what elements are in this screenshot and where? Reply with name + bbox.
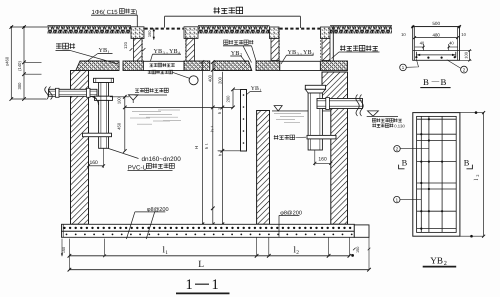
- YB2 right dim line: [460, 112, 484, 114]
- svg-text:h: h: [209, 129, 214, 132]
- svg-text:1: 1: [108, 50, 110, 55]
- svg-text:dn160~dn200: dn160~dn200: [142, 156, 182, 163]
- svg-text:1: 1: [212, 277, 219, 293]
- B-B rebar mark 2: [461, 66, 468, 73]
- svg-text:YB: YB: [430, 255, 443, 265]
- svg-text:2: 2: [396, 147, 399, 152]
- label reserved for suction pump: [148, 70, 173, 74]
- svg-text:4: 4: [178, 50, 181, 55]
- svg-text:3: 3: [218, 108, 222, 110]
- shaft1 brick wall left: [134, 39, 143, 62]
- svg-text:2: 2: [296, 250, 299, 256]
- svg-text:L: L: [198, 260, 204, 270]
- pipe support bracket chamber1: [83, 133, 112, 137]
- svg-text:150: 150: [356, 247, 360, 253]
- chamber1 water line: [125, 106, 233, 108]
- B-B rebar mark 1: [400, 64, 407, 71]
- svg-text:≥460: ≥460: [4, 56, 9, 66]
- svg-text:100: 100: [463, 51, 468, 58]
- shaft2 brick wall right: [322, 39, 330, 61]
- svg-text:1Φ6( C15: 1Φ6( C15: [92, 9, 119, 16]
- svg-text:): ): [135, 9, 137, 16]
- inlet drop pipe: [99, 100, 109, 148]
- shaft2 inner face dashed lines: [278, 31, 280, 61]
- svg-text:2: 2: [463, 67, 466, 72]
- dim line L: [69, 269, 369, 271]
- ground line mid segment: [198, 25, 270, 27]
- svg-text:B: B: [423, 77, 429, 87]
- chamber2 water line: [272, 110, 331, 112]
- chamber1 water ripples: [132, 110, 161, 112]
- shaft2 concrete collar right: [321, 27, 331, 39]
- label plastic plug seal: [340, 45, 378, 51]
- dim 160 below inlet drop pipe: [89, 165, 104, 167]
- svg-text:2: 2: [218, 150, 222, 152]
- outlet pipe break symbol: [356, 95, 364, 117]
- left dim chain vertical outer: [10, 27, 12, 99]
- open box under shaft2: [280, 61, 321, 70]
- svg-text:0.130: 0.130: [394, 123, 405, 128]
- water level triangle partition: [274, 106, 282, 111]
- svg-text:H: H: [194, 146, 199, 149]
- soil hatch band right: [330, 26, 392, 33]
- chamber2 water ripples: [274, 112, 301, 114]
- bottom slab band2: [62, 231, 355, 237]
- svg-text:120: 120: [123, 41, 128, 48]
- ground line right segment: [330, 25, 392, 27]
- left tank wall brick: [71, 71, 89, 225]
- detail B-B beam outline: [413, 27, 460, 61]
- svg-text:B: B: [441, 77, 447, 87]
- svg-text:3: 3: [297, 51, 300, 56]
- bottom slab right extension block: [354, 225, 369, 237]
- B-B bottom slab band: [413, 50, 460, 52]
- left small dim 150 under slab: [61, 239, 63, 257]
- YB2 junction dots: [420, 133, 422, 135]
- B-B dim 500: [413, 26, 460, 28]
- outlet drop pipe flare top: [305, 85, 325, 89]
- shaft1 inner face dashed lines: [141, 31, 143, 61]
- middle dim chain line inner: [221, 72, 223, 225]
- ground line left segment: [48, 25, 132, 27]
- label cement mortar caulking: [224, 40, 254, 44]
- svg-text:160: 160: [318, 156, 327, 162]
- svg-text:300: 300: [17, 82, 22, 90]
- label cast iron manhole cover: [214, 7, 243, 14]
- svg-text:40: 40: [449, 41, 454, 46]
- outlet horizontal pipe through wall: [317, 99, 363, 109]
- svg-text:1: 1: [186, 277, 193, 293]
- water level triangle inlet: [128, 95, 138, 100]
- shaft2 cast-iron cover dashed: [280, 28, 321, 30]
- shaft1 cast-iron cover dashed: [145, 28, 184, 30]
- leader dn160-dn200 pipe label: [109, 149, 139, 159]
- svg-text:1: 1: [210, 126, 214, 128]
- shaft1 brick wall right: [186, 39, 195, 62]
- ext line at plate bottom level: [218, 150, 247, 152]
- label do-not-seal (bu feng kou): [56, 43, 75, 49]
- inlet riser tube: [99, 83, 109, 97]
- svg-text:h: h: [217, 153, 222, 156]
- dim line l1 l2: [69, 255, 349, 257]
- shaft1 concrete collar left: [131, 27, 144, 39]
- bottom slab left double edge: [62, 224, 64, 237]
- svg-text:450: 450: [117, 122, 122, 130]
- svg-text:(140): (140): [17, 61, 22, 71]
- vent pipe circle: [189, 76, 198, 85]
- svg-text:400: 400: [208, 74, 213, 82]
- bottom slab band1 with rebar dots: [62, 224, 355, 231]
- inlet pipe horizontal: [49, 89, 98, 96]
- pipe support bracket chamber2: [307, 135, 336, 139]
- shaft1 150 dim: [153, 28, 155, 40]
- svg-text:2: 2: [475, 175, 480, 177]
- shaft2 concrete collar left: [270, 27, 280, 39]
- outlet level line and triangle: [367, 115, 398, 117]
- dim 160 outlet pipe: [315, 162, 331, 164]
- svg-text:150: 150: [62, 247, 66, 253]
- inlet pipe socket rings: [56, 88, 60, 97]
- svg-text:B: B: [464, 159, 470, 168]
- outlet pipe socket at wall: [326, 98, 330, 110]
- cover slab 2: [123, 61, 143, 71]
- shaft2 brick wall left: [271, 39, 279, 61]
- label vent pipe hole (in box): [150, 63, 175, 67]
- inlet pipe break symbol: [45, 87, 53, 100]
- YB2 inner rect: [417, 116, 457, 232]
- svg-text:B: B: [402, 159, 408, 168]
- B-B rebar with arrows: [418, 54, 455, 56]
- svg-text:10: 10: [401, 32, 406, 37]
- svg-text:100: 100: [116, 96, 121, 104]
- svg-text:l: l: [473, 178, 480, 180]
- B-B 40 dims: [423, 44, 425, 51]
- svg-text:h: h: [217, 111, 222, 114]
- cover slab 5: [256, 61, 280, 71]
- soil hatch band left: [48, 26, 132, 33]
- svg-text:3: 3: [163, 50, 166, 55]
- YB2 mark 1 circle: [394, 196, 400, 202]
- svg-text:1: 1: [165, 250, 168, 256]
- dim 100-450 vertical line: [124, 97, 126, 151]
- svg-text:h: h: [204, 146, 209, 149]
- label inlet pipe elevation: [135, 88, 168, 92]
- right tank wall brick: [322, 72, 348, 224]
- svg-text:480: 480: [433, 33, 441, 38]
- label pipe support: [274, 135, 295, 140]
- hanging baffle plate YB1: [241, 90, 247, 152]
- svg-text:1: 1: [402, 65, 405, 70]
- bottom dim extension lines: [68, 239, 70, 270]
- cover slab YB1 leftmost: [76, 61, 119, 71]
- svg-text:1: 1: [205, 143, 209, 145]
- inlet tee socket: [95, 96, 113, 100]
- svg-text:200: 200: [217, 76, 222, 84]
- YB2 mark 2 circle: [394, 146, 400, 152]
- svg-text:160: 160: [90, 160, 99, 166]
- svg-text:40: 40: [420, 41, 425, 46]
- svg-text:1: 1: [396, 197, 399, 202]
- soil hatch band mid: [198, 26, 270, 33]
- partition wall brick: [257, 111, 270, 225]
- svg-text:—: —: [431, 76, 440, 85]
- shaft1 concrete collar right: [184, 27, 198, 39]
- label outlet lower than inlet line2: [372, 124, 393, 128]
- vent hole box in cover: [143, 61, 184, 70]
- svg-text:200: 200: [226, 95, 231, 103]
- cover slab right end: [320, 61, 347, 71]
- inlet riser collar open top: [94, 78, 114, 82]
- left dim chain vertical inner: [23, 27, 25, 99]
- YB2 rebar horizontals: [417, 118, 457, 120]
- B-B right dim 100: [460, 50, 472, 52]
- cover slab YB2 wide: [214, 61, 252, 71]
- edge line right of covers: [332, 26, 334, 61]
- YB2 slab plan outer rect: [413, 113, 460, 237]
- svg-text:500: 500: [432, 21, 440, 26]
- svg-text:4: 4: [312, 51, 315, 56]
- inlet elbow curve: [91, 96, 99, 105]
- dim 200 baffle top: [232, 89, 234, 107]
- cover slab 3: [184, 61, 210, 71]
- svg-text:10: 10: [461, 32, 466, 37]
- outlet drop pipe tube: [308, 93, 322, 150]
- middle dim chain line h1: [212, 62, 214, 224]
- svg-text:150: 150: [147, 30, 152, 37]
- label outlet pipe elevation line1: [372, 118, 402, 122]
- YB2 rebar verticals: [420, 116, 422, 232]
- B-B dim 480 and 10s: [415, 37, 458, 39]
- middle dim chain line H: [201, 62, 203, 224]
